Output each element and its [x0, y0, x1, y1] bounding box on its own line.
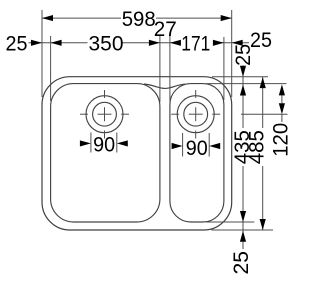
arrow 350 left	[51, 40, 62, 46]
svg-text:485: 485	[244, 130, 268, 164]
arrow 25 top-right pointing down	[240, 66, 246, 77]
arrow 435 top	[240, 85, 246, 96]
arrow 171 left	[170, 40, 181, 46]
arrow 171 right	[213, 40, 224, 46]
svg-text:25: 25	[6, 31, 28, 55]
extension line left bowl left edge	[50, 36, 52, 101]
svg-text:25: 25	[229, 251, 253, 275]
arrow 598 right	[221, 15, 232, 21]
right drain 90 extension stubs	[183, 133, 210, 157]
arrow 25-right pointing left at sink right edge	[232, 40, 243, 46]
left drain outer circle	[86, 96, 123, 133]
dimension 25 top-right vertical	[242, 65, 244, 128]
arrow 25-left pointing right at sink edge	[31, 40, 42, 46]
extension line sink right edge	[231, 10, 233, 97]
arrow 435 bottom	[240, 211, 246, 222]
arrow 90-left left pointing right	[80, 140, 91, 146]
extension line sink bottom (right side)	[212, 229, 274, 231]
svg-text:90: 90	[186, 136, 208, 160]
arrow 120 bottom	[279, 103, 285, 114]
right bowl outline	[170, 84, 224, 222]
extension line bowl top (right side)	[206, 83, 287, 85]
svg-text:27: 27	[154, 17, 177, 41]
left drain 90 extension stubs	[91, 133, 117, 153]
svg-text:25: 25	[231, 44, 255, 66]
arrow 120 top	[279, 84, 285, 95]
extension line sink left edge	[41, 10, 43, 97]
dimension line 120	[281, 94, 283, 122]
right drain crosshair	[171, 90, 220, 139]
dimension line 485	[262, 77, 264, 230]
saddle curve across gap between bowls	[144, 84, 185, 88]
dimension 25 bottom-right vertical	[242, 222, 244, 249]
left bowl outline	[51, 84, 160, 222]
sink outer outline	[42, 77, 232, 230]
extension line drain center (right side)	[241, 113, 288, 115]
svg-text:120: 120	[269, 123, 293, 157]
extension line right bowl left edge	[169, 36, 171, 102]
svg-text:598: 598	[122, 7, 156, 31]
arrow 485 top	[260, 77, 266, 88]
arrow 90-right left pointing right	[172, 143, 183, 149]
arrow 485 bottom	[260, 219, 266, 230]
arrow 25 bottom-right pointing up	[240, 231, 246, 242]
right drain inner circle	[184, 102, 208, 126]
svg-text:350: 350	[89, 31, 124, 55]
left drain crosshair	[80, 90, 129, 139]
extension line sink top (right side)	[212, 76, 268, 78]
arrow 350 right	[149, 40, 160, 46]
left drain inner circle	[93, 102, 117, 126]
dimension line 598	[42, 17, 232, 19]
dimension line row 25/350/27/171/25	[29, 42, 250, 44]
arrow 90-right right pointing left	[209, 143, 220, 149]
dimension line 435	[242, 166, 244, 222]
right drain outer circle	[177, 96, 214, 133]
extension line bowl bottom (right side)	[206, 221, 254, 223]
extension line right bowl right edge	[223, 37, 225, 100]
extension line left bowl right edge	[159, 36, 161, 102]
arrow 90-left right pointing left	[117, 140, 128, 146]
svg-text:90: 90	[93, 132, 115, 156]
arrow 598 left	[42, 15, 53, 21]
svg-text:171: 171	[181, 31, 210, 55]
